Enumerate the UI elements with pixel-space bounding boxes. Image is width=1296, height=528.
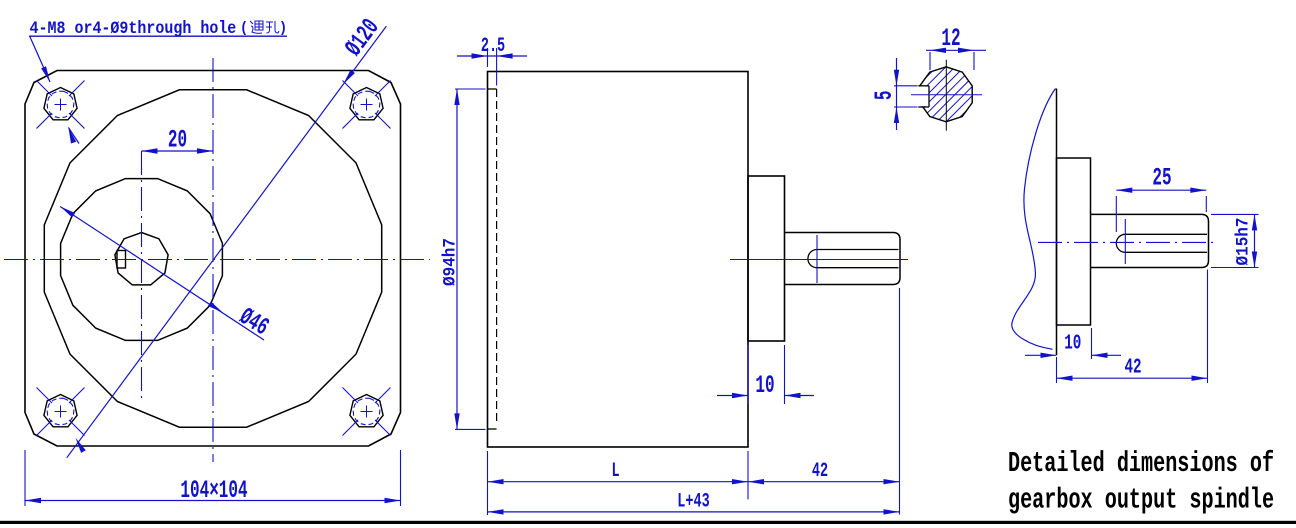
label (tong kong) chinese [240, 21, 287, 38]
svg-text:4-M8 or4-Ø9through hole: 4-M8 or4-Ø9through hole [30, 18, 237, 38]
svg-text:): ) [279, 21, 287, 38]
output shaft bore (9-gon) [115, 233, 168, 285]
shaft centerline (side view) [730, 259, 908, 261]
dimension L+43 (overall length) [488, 491, 900, 514]
section horizontal centerline [911, 94, 982, 96]
mounting hole bottom-left (M8) [37, 388, 85, 436]
drawing frame bottom border [0, 521, 1296, 524]
keyway notch white mask [917, 87, 929, 107]
keyway arc tick detail [1124, 219, 1126, 264]
output spindle detail view [1091, 214, 1209, 267]
label O120 [341, 15, 386, 62]
label O46 [234, 304, 273, 342]
mounting hole top-right (M8) [343, 81, 391, 129]
dimension 42 (shaft extension length) [748, 288, 900, 515]
svg-text:L+43: L+43 [677, 491, 709, 513]
dimension 12 (section width) [926, 26, 986, 70]
svg-text:10: 10 [755, 373, 774, 400]
shaft cross-section hatching [868, 62, 1024, 126]
spindle keyway slot detail [1116, 234, 1207, 252]
bolt circle diagonal line O120 [67, 26, 387, 458]
svg-text:10: 10 [1064, 332, 1081, 355]
keyway arc centerline tick [816, 235, 818, 283]
gearbox body circle O94 (front view, 16-gon) [44, 90, 381, 427]
svg-text:L: L [611, 461, 619, 483]
hole callout leader with arrow [30, 36, 80, 144]
svg-text:gearbox output spindle: gearbox output spindle [1008, 484, 1274, 517]
svg-text:20: 20 [168, 127, 187, 154]
note: detailed dimensions caption [1008, 448, 1274, 517]
mounting hole bottom-right (M8) [343, 388, 391, 436]
dimension 20 (bore offset) [142, 127, 214, 154]
output bearing boss side view [748, 176, 785, 341]
pilot step lines on mounting face [488, 89, 497, 429]
output shaft side view [785, 233, 901, 285]
dimension L (body length) [488, 451, 749, 515]
gearbox face line [1056, 89, 1058, 356]
bearing boss circle O46 (16-gon) [61, 179, 223, 341]
bore keyway slot [117, 251, 126, 269]
horizontal centerline of flange [4, 259, 430, 261]
section vertical centerline [945, 60, 947, 131]
gearbox body side view rectangle [488, 72, 749, 448]
svg-text:5: 5 [872, 90, 899, 100]
svg-text:2.5: 2.5 [481, 36, 505, 58]
spindle centerline [1038, 241, 1218, 243]
dimension 104x104 [25, 450, 401, 506]
dimension 42 (spindle length detail) [1057, 270, 1208, 384]
output boss detail view [1057, 158, 1091, 325]
dimension 10 (boss depth detail) [1025, 328, 1121, 359]
svg-text:42: 42 [1124, 356, 1141, 379]
dimension O94h7 (body diameter) [441, 89, 486, 429]
svg-text:Detailed dimensions of: Detailed dimensions of [1008, 448, 1274, 481]
vertical centerline of shaft bore [141, 151, 143, 398]
break line (wavy) [1012, 89, 1056, 350]
label 4-M8 or4-O9 through hole [29, 18, 287, 38]
dimension 5 (keyway width) [872, 58, 918, 130]
dimension 2.5 (pilot depth) [457, 36, 527, 86]
svg-text:Ø120: Ø120 [341, 15, 386, 62]
svg-text:42: 42 [812, 461, 828, 483]
vertical centerline of flange [212, 58, 214, 462]
dimension 25 (keyway length) [1116, 165, 1206, 232]
svg-text:25: 25 [1152, 165, 1171, 192]
keyway notch in section [918, 86, 929, 107]
svg-text:12: 12 [941, 26, 960, 53]
svg-text:Ø46: Ø46 [234, 304, 273, 342]
svg-text:Ø15h7: Ø15h7 [1234, 217, 1254, 265]
svg-text:Ø94h7: Ø94h7 [441, 238, 461, 286]
svg-text:(: ( [240, 21, 248, 38]
svg-text:104×104: 104×104 [180, 478, 247, 505]
dimension O46 leader [60, 207, 264, 341]
dimension 10 (boss width) [717, 345, 814, 404]
dimension O15h7 (spindle diameter) [1211, 214, 1259, 267]
hidden pilot line (dashed) [496, 89, 498, 425]
flange outline (104x104 square, front view) [25, 71, 401, 447]
shaft keyway slot side view [808, 250, 899, 268]
mounting hole top-left (M8) [37, 81, 85, 129]
shaft cross-section circle (10-gon) [920, 67, 972, 122]
